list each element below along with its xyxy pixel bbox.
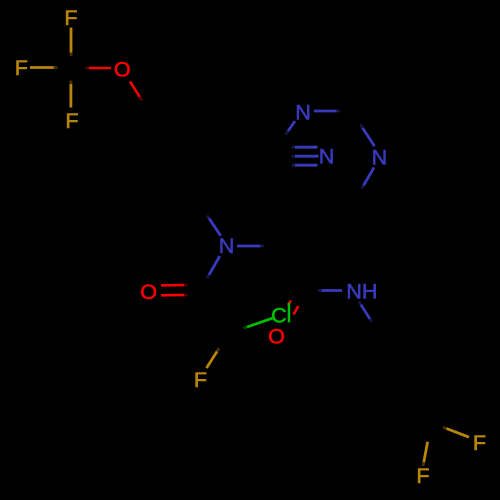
svg-text:F: F [15,55,28,80]
svg-text:F: F [64,5,77,30]
svg-text:O: O [114,57,131,82]
svg-text:F: F [473,430,486,455]
svg-text:N: N [219,233,235,258]
svg-text:F: F [194,367,207,392]
svg-text:NH: NH [346,279,377,304]
svg-text:C: C [271,302,287,327]
svg-text:N: N [319,144,335,169]
svg-text:O: O [140,279,157,304]
svg-text:N: N [372,145,388,170]
svg-text:F: F [416,463,429,488]
svg-text:O: O [268,324,285,349]
svg-text:N: N [295,100,311,125]
svg-text:F: F [65,108,78,133]
